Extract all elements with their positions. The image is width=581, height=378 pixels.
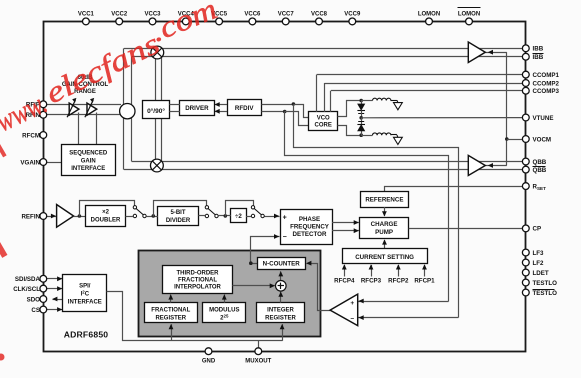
svg-text:IBB: IBB [533, 46, 544, 53]
svg-text:RFCM: RFCM [22, 132, 40, 139]
svg-text:PUMP: PUMP [375, 229, 393, 236]
svg-text:DOUBLER: DOUBLER [91, 217, 121, 223]
svg-text:INTERPOLATOR: INTERPOLATOR [174, 285, 221, 291]
svg-text:CURRENT SETTING: CURRENT SETTING [355, 254, 414, 261]
svg-text:CCOMP1: CCOMP1 [533, 72, 560, 79]
svg-text:VCO: VCO [317, 115, 330, 121]
svg-text:−: − [283, 234, 287, 241]
svg-text:GND: GND [202, 358, 216, 364]
svg-text:LOMON: LOMON [418, 11, 440, 17]
svg-text:INTEGER: INTEGER [267, 308, 294, 314]
svg-text:CHARGE: CHARGE [371, 221, 398, 228]
svg-text:VTUNE: VTUNE [533, 115, 554, 122]
svg-text:5-BIT: 5-BIT [171, 210, 186, 216]
svg-text:INTERFACE: INTERFACE [71, 166, 105, 172]
svg-text:VCC1: VCC1 [78, 11, 95, 17]
svg-text:DIVIDER: DIVIDER [166, 218, 191, 224]
svg-text:LDET: LDET [533, 270, 549, 277]
svg-text:DRIVER: DRIVER [185, 105, 209, 112]
svg-text:SDI/SDA: SDI/SDA [15, 276, 41, 283]
svg-text:REFIN: REFIN [21, 213, 40, 220]
svg-text:LF3: LF3 [533, 250, 545, 257]
svg-text:REGISTER: REGISTER [155, 316, 186, 322]
svg-text:INTERFACE: INTERFACE [68, 299, 102, 305]
svg-text:×2: ×2 [102, 209, 110, 215]
svg-text:FRACTIONAL: FRACTIONAL [178, 278, 217, 284]
svg-text:VCC8: VCC8 [311, 11, 328, 17]
svg-text:ADRF6850: ADRF6850 [64, 330, 109, 340]
svg-text:VOCM: VOCM [533, 136, 552, 143]
svg-text:FRACTIONAL: FRACTIONAL [151, 308, 190, 314]
svg-text:VGAIN: VGAIN [20, 159, 40, 166]
svg-text:+: + [283, 214, 287, 221]
svg-text:MUXOUT: MUXOUT [245, 358, 271, 364]
svg-text:RFCP4: RFCP4 [334, 278, 355, 285]
svg-text:REFERENCE: REFERENCE [365, 197, 403, 204]
svg-text:RFCP3: RFCP3 [361, 278, 382, 285]
svg-text:N-COUNTER: N-COUNTER [263, 261, 301, 268]
svg-text:÷2: ÷2 [235, 213, 242, 220]
svg-text:CORE: CORE [315, 122, 332, 128]
svg-text:CLK/SCL: CLK/SCL [13, 286, 40, 293]
svg-text:FREQUENCY: FREQUENCY [290, 224, 330, 231]
svg-text:VCC2: VCC2 [111, 11, 128, 17]
svg-text:PHASE: PHASE [299, 216, 320, 223]
svg-text:SPI/: SPI/ [79, 283, 91, 289]
svg-text:RFCP1: RFCP1 [414, 278, 435, 285]
svg-text:QBB: QBB [533, 159, 547, 166]
svg-text:LF2: LF2 [533, 260, 545, 267]
svg-text:VCC9: VCC9 [344, 11, 361, 17]
svg-text:CP: CP [533, 226, 542, 233]
svg-text:SDO: SDO [27, 296, 41, 303]
svg-text:CCOMP2: CCOMP2 [533, 80, 560, 87]
svg-text:TESTLO: TESTLO [533, 290, 558, 297]
svg-text:+: + [350, 300, 354, 307]
svg-text:IBB: IBB [533, 54, 544, 61]
svg-text:RFDIV: RFDIV [235, 105, 254, 112]
svg-text:QBB: QBB [533, 167, 547, 174]
svg-text:VCC6: VCC6 [244, 11, 261, 17]
svg-text:REGISTER: REGISTER [265, 316, 296, 322]
svg-text:LOMON: LOMON [458, 11, 480, 17]
svg-text:THIRD-ORDER: THIRD-ORDER [177, 271, 220, 277]
svg-text:TESTLO: TESTLO [533, 280, 558, 287]
svg-text:VCC7: VCC7 [278, 11, 295, 17]
svg-text:−: − [350, 316, 354, 323]
svg-text:CS: CS [31, 307, 40, 314]
svg-text:DETECTOR: DETECTOR [293, 231, 327, 238]
svg-text:I2C: I2C [81, 289, 90, 297]
svg-text:RFCP2: RFCP2 [388, 278, 409, 285]
svg-text:CCOMP3: CCOMP3 [533, 88, 560, 95]
svg-text:GAIN: GAIN [81, 158, 96, 164]
svg-text:SEQUENCED: SEQUENCED [69, 151, 108, 157]
svg-text:0°/90°: 0°/90° [147, 107, 165, 115]
